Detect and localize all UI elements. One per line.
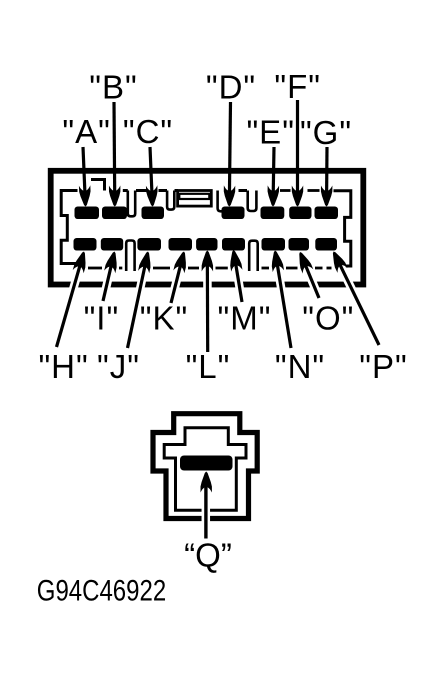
svg-text:"O": "O" (302, 300, 354, 337)
leader arrow for pin B (112, 102, 116, 193)
connector J2 inner face (164, 428, 246, 511)
svg-text:"B": "B" (89, 69, 137, 106)
svg-text:“Q”: “Q” (184, 537, 232, 574)
leader arrow for pin G (325, 147, 329, 193)
keying slot left of pin D (218, 191, 223, 212)
svg-text:"P": "P" (359, 348, 407, 385)
bottom keying slot between pins I and J (126, 241, 134, 272)
connector J1 outer shell (51, 171, 364, 285)
pin O (289, 238, 310, 251)
leader arrow for pin A (83, 147, 85, 193)
svg-text:G94C46922: G94C46922 (37, 573, 166, 607)
pin F (289, 207, 311, 220)
pin B (102, 207, 127, 220)
leader arrow for pin Q (204, 484, 207, 539)
inner face top edge segments (123, 189, 128, 192)
keying slot between pins D and E (248, 191, 257, 212)
svg-text:"D": "D" (206, 69, 256, 106)
svg-text:"F": "F" (274, 68, 321, 105)
pin P (315, 238, 337, 251)
pin Q (180, 456, 233, 471)
keying slot between pins B and C (128, 191, 135, 217)
connector J1 inner face left bracket (61, 191, 79, 264)
svg-text:"H": "H" (38, 348, 88, 385)
leader arrow for pin O (305, 265, 319, 298)
leader arrow for pin H (57, 265, 81, 347)
svg-text:"K": "K" (140, 300, 188, 337)
leader arrow for pin I (103, 265, 111, 301)
white gaps where leader lines cross outlines (57, 264, 81, 347)
pin H (74, 238, 97, 251)
svg-text:"A": "A" (62, 113, 110, 150)
svg-text:"N": "N" (275, 348, 325, 385)
leader arrow for pin C (150, 147, 152, 193)
svg-text:"I": "I" (84, 300, 120, 337)
bottom keying slot between pins M and N (249, 241, 258, 271)
inner face top edge dashes (right) (280, 189, 291, 192)
center keying box (178, 191, 212, 207)
pin N (262, 238, 286, 251)
pin I (101, 238, 123, 251)
center keying box inner bar (179, 194, 209, 199)
leader arrow for pin K (171, 265, 181, 303)
pin G (315, 207, 339, 220)
svg-text:"C": "C" (123, 113, 173, 150)
svg-text:"M": "M" (218, 300, 272, 337)
pin M (222, 238, 245, 251)
leader arrow for pin F (296, 100, 299, 193)
pin J (137, 238, 161, 251)
svg-text:"L": "L" (186, 348, 231, 385)
svg-text:"J": "J" (97, 348, 140, 385)
leader arrow for pin D (229, 102, 230, 193)
pin L (196, 238, 217, 251)
connector J2 outer shell (153, 414, 257, 519)
svg-text:"G": "G" (300, 114, 352, 151)
inner face bottom center-line dashes (88, 267, 102, 270)
leader arrow for pin P (340, 264, 379, 345)
svg-text:"E": "E" (246, 114, 294, 151)
pin C (142, 207, 165, 220)
pin D (222, 207, 245, 220)
leader arrow for pin J (128, 265, 146, 348)
connector J1 inner face right bracket (334, 191, 351, 266)
leader arrow for pin N (277, 264, 291, 348)
latch notch above pin B (91, 180, 105, 191)
pin E (261, 207, 285, 220)
pin K (169, 238, 193, 251)
white gap where Q leader crosses shell (202, 486, 211, 539)
pin A (75, 207, 100, 220)
leader arrow for pin E (272, 147, 276, 193)
leader arrow for pin L (206, 264, 210, 352)
leader arrow for pin M (236, 264, 242, 302)
keying slot right of pin C (167, 191, 174, 210)
